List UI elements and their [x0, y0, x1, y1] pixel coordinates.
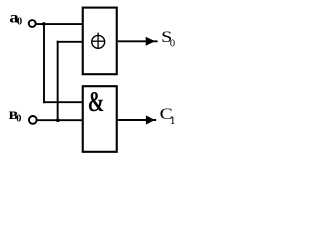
XOR gate U1 box	[83, 8, 117, 75]
wire C1 output	[118, 119, 156, 121]
junction dot on a0 wire	[42, 22, 46, 26]
label b0	[9, 106, 22, 125]
wire b0 branch to XOR input 2	[57, 41, 82, 43]
wire a0 branch down	[43, 24, 45, 103]
wire b0 to AND input 2	[37, 119, 82, 121]
label a0	[9, 9, 22, 27]
svg-text:0: 0	[170, 39, 175, 50]
AND symbol &	[88, 87, 105, 119]
label S0	[161, 29, 175, 50]
svg-text:0: 0	[16, 114, 21, 125]
label C1	[160, 105, 176, 127]
wire a0 to XOR input 1	[36, 23, 82, 25]
arrowhead C1	[146, 115, 155, 124]
wire a0 branch to AND input 1	[43, 101, 82, 103]
svg-text:0: 0	[17, 16, 22, 27]
input terminal a0	[29, 20, 36, 27]
XOR symbol circled-plus	[92, 33, 106, 49]
AND gate U2 box	[83, 86, 117, 152]
arrowhead S0	[146, 37, 156, 46]
junction dot on b0 wire	[56, 118, 60, 122]
svg-text:1: 1	[170, 113, 176, 127]
input terminal b0	[29, 116, 37, 124]
wire b0 branch up	[57, 41, 59, 120]
svg-text:&: &	[88, 87, 105, 119]
wire S0 output	[118, 40, 158, 42]
